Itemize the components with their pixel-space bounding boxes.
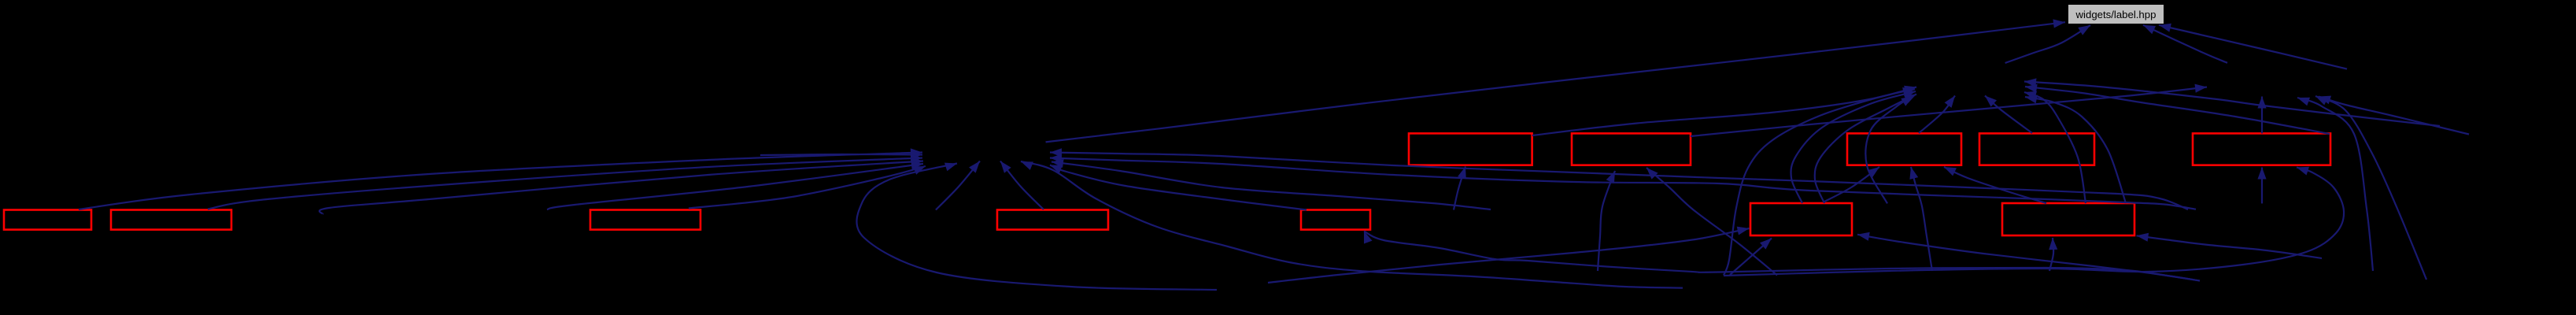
edge rank5 -> red12 right — [2137, 233, 2323, 258]
node red box 8 — [1847, 133, 1961, 165]
node red box 2 — [111, 210, 231, 230]
edge node H -> node D right — [2319, 96, 2469, 135]
node red box 11 — [1750, 203, 1852, 235]
edge box1 -> node A — [79, 148, 922, 209]
edge box4 -> node A bottom — [1000, 161, 1044, 210]
edge box9 -> node B bottom — [1985, 96, 2032, 134]
edge node R3 -> node A right — [1051, 159, 1491, 209]
edge node W4a -> box7 bottom — [1598, 171, 1615, 271]
edge node J -> node A — [547, 161, 923, 209]
node red box 12 — [2002, 203, 2134, 235]
edge red12 -> node B right (1) — [2024, 91, 2086, 203]
edge node W2 -> red11 left — [1268, 227, 1750, 283]
edge node O -> box6 bottom — [1454, 167, 1466, 210]
node widgets/label.hpp (gray label box) — [2068, 5, 2164, 24]
edge red10 -> node D (vertical) — [2257, 97, 2266, 134]
edge node W9 -> red12 bottom — [2049, 238, 2057, 271]
edge box2 -> node A — [208, 154, 922, 209]
edge red11 -> red8 (diagonal) — [1824, 167, 1879, 202]
edge node V3 -> red10 (vertical) — [2257, 168, 2266, 204]
edge node W5b -> red11 bottom — [1730, 239, 1772, 276]
edge node E2 -> node B right — [2025, 84, 2330, 134]
edge node I -> node A — [320, 157, 923, 214]
edge node W11 -> red8 bottom — [1909, 167, 1932, 271]
edge node B -> widgets/label.hpp — [2005, 25, 2090, 63]
edge red11 -> node B (curve 2) — [1815, 94, 1916, 204]
node red box 9 — [1979, 133, 2094, 165]
edge node D -> widgets/label.hpp — [2143, 25, 2227, 63]
edge box7 -> node D left — [1691, 84, 2207, 136]
edge red11 -> node B (curve 1) — [1791, 91, 1916, 203]
edge node W6 -> red11 right — [1857, 232, 2200, 281]
edge node V1 -> node B — [1865, 96, 1913, 203]
edge node W4b -> box7 bottom — [1646, 168, 1777, 276]
node red box 4 — [997, 210, 1108, 230]
edge node V2b -> node A right — [1050, 154, 2196, 209]
edge red12 -> red8 bottom — [1944, 167, 2046, 203]
svg-text:widgets/label.hpp: widgets/label.hpp — [2075, 9, 2157, 20]
node red box 3 — [590, 210, 700, 230]
edge node H -> node B right (long curve) — [2024, 78, 2440, 126]
node red box 1 (bottom-left) — [4, 210, 91, 230]
edge red12 -> node B right (2) — [2025, 95, 2126, 204]
edge box8 -> node B bottom — [1919, 96, 1955, 134]
edge node W1 -> node A (big C curve) — [857, 163, 1217, 290]
node red box 7 — [1572, 133, 1691, 165]
edge node W5 -> red10 bottom (hook curve) — [1724, 167, 2344, 276]
edge box3 -> node A — [689, 166, 926, 209]
edge box5 -> node A right — [1050, 165, 1306, 210]
edge node V2a -> node A right — [1050, 148, 2188, 209]
edge node K -> node A bottom — [936, 161, 980, 210]
edge node E -> widgets/label.hpp — [2159, 24, 2347, 69]
edge node Wc3 -> node D bottom-right — [2315, 96, 2426, 280]
edge node Wc2 -> node D bottom — [2297, 98, 2373, 271]
edge node W5 -> node B (tall curve) — [1724, 87, 1915, 276]
edge node W6 -> box5 bottom — [1364, 232, 2200, 281]
edge node G -> node A — [760, 150, 922, 159]
node red box 5 — [1301, 210, 1370, 230]
edge box6 -> node B — [1532, 86, 1916, 135]
edge node W3 -> node A bottom — [1021, 161, 1683, 288]
node red box 6 — [1409, 133, 1532, 165]
node red box 10 — [2193, 133, 2330, 165]
edge node A -> widgets/label.hpp — [1046, 19, 2065, 142]
